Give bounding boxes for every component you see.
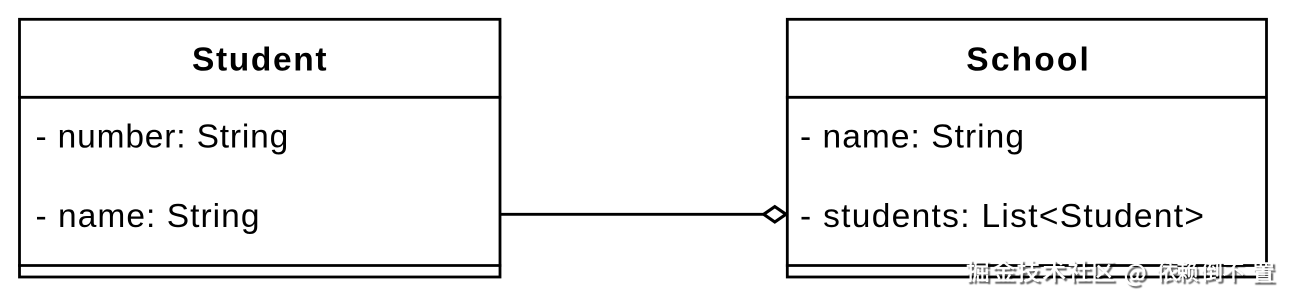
aggregation wire Student to School <box>501 213 764 216</box>
aggregation diamond at School <box>764 207 786 222</box>
School title divider <box>786 96 1267 99</box>
Student title divider <box>18 96 501 99</box>
svg-text:School: School <box>966 42 1089 79</box>
svg-text:- name: String: - name: String <box>800 119 1024 156</box>
class box Student <box>20 19 501 277</box>
svg-text:Student: Student <box>192 42 327 79</box>
svg-text:- students: List<Student>: - students: List<Student> <box>800 198 1204 235</box>
watermark juejin <box>967 260 1274 286</box>
svg-text:- number: String: - number: String <box>36 119 289 156</box>
School methods divider <box>786 264 1267 267</box>
class box School <box>787 19 1266 277</box>
svg-text:- name: String: - name: String <box>36 198 260 235</box>
Student methods divider <box>18 264 501 267</box>
